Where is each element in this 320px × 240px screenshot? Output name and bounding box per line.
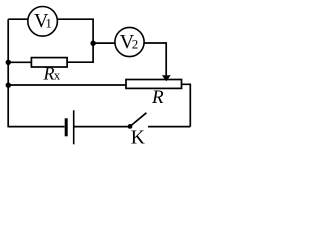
rheostat wiper arrowhead [162,75,171,81]
wire bottom middle from battery to switch [74,126,130,128]
voltmeter V1 [28,6,58,36]
wire bottom right from right rail to switch [148,126,190,128]
wire R right terminal to right rail [182,84,191,126]
battery positive plate (long thin) [73,110,75,144]
svg-text:2: 2 [132,37,139,52]
wire bottom left from left rail to battery [8,126,64,128]
node A junction dot [90,41,95,46]
resistor Rx box [31,58,67,67]
svg-text:R: R [151,87,164,108]
svg-text:1: 1 [45,15,52,30]
switch K lever [130,113,146,127]
node dot on left rail at Rx branch [6,60,11,65]
battery negative plate (short thick) [65,118,68,136]
wire middle horizontal from left rail to R left terminal [8,84,126,86]
label Rx [43,64,61,84]
wire node A down to Rx right terminal [68,43,94,62]
svg-text:R: R [43,64,55,84]
node dot on left rail at middle wire [6,83,11,88]
wire Rx left terminal to left rail [8,61,31,63]
wire V2 right to rheostat wiper (vertical) [144,43,166,76]
wire from V1 right to node A [58,19,93,43]
switch K pivot dot [128,124,133,129]
wire top-left from V1 to left rail [8,18,27,20]
wire node A to V2 left terminal [93,42,115,44]
wire left rail vertical [7,19,9,127]
voltmeter V2 [115,27,144,56]
svg-text:x: x [54,68,61,83]
svg-text:K: K [131,128,145,149]
rheostat R box [126,80,182,89]
